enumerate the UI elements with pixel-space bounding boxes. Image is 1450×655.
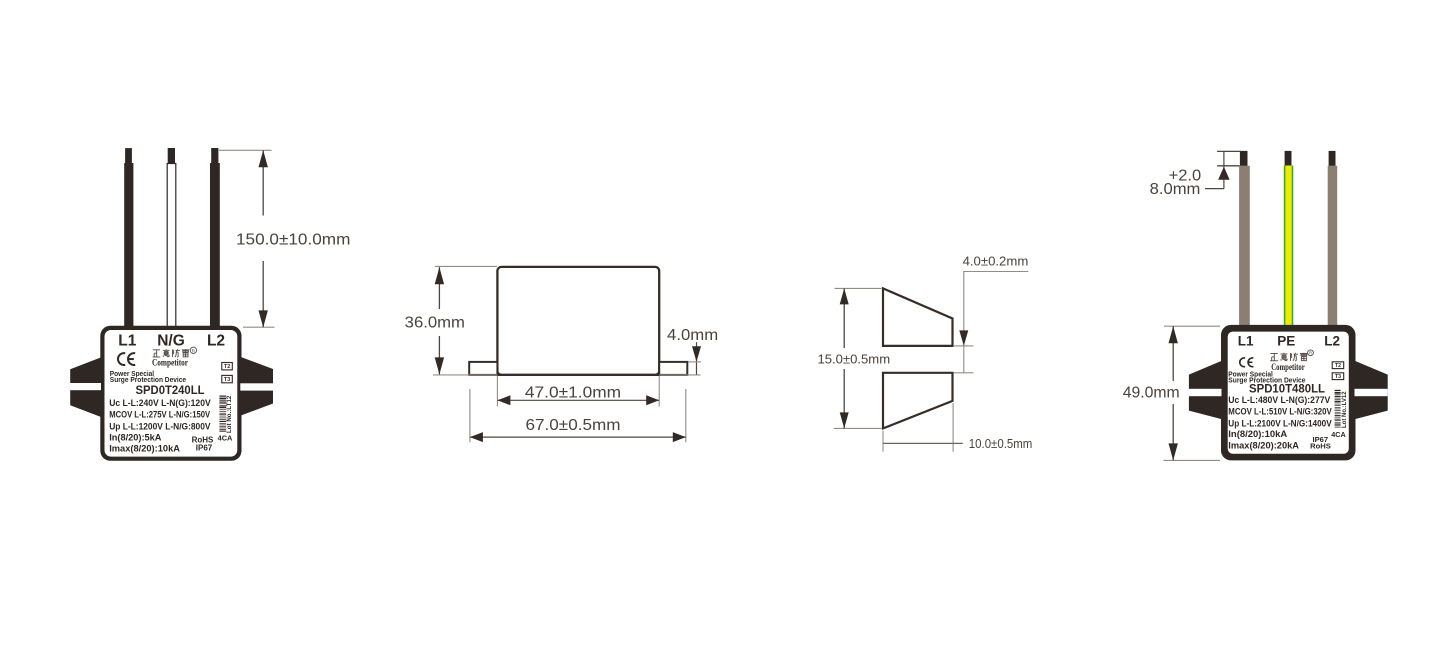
- brand hanzi 正意防雷: [153, 349, 160, 351]
- svg-text:Competitor: Competitor: [1271, 362, 1305, 372]
- right device right mounting wing: [1355, 361, 1388, 419]
- svg-text:Competitor: Competitor: [152, 358, 188, 369]
- class box T3 right: [1332, 373, 1344, 380]
- svg-text:T3: T3: [224, 377, 231, 383]
- right device body (black rounded box with white face): [1221, 325, 1356, 461]
- svg-text:T3: T3: [1335, 374, 1341, 380]
- svg-text:T2: T2: [224, 364, 231, 370]
- baseline: [433, 374, 701, 376]
- ratings text block: [109, 397, 211, 454]
- right device wire L1 (grey): [1239, 151, 1250, 325]
- svg-text:Lot No.:LV12: Lot No.:LV12: [1342, 391, 1348, 428]
- svg-text:In(8/20):5kA: In(8/20):5kA: [109, 432, 162, 443]
- svg-text:67.0±0.5mm: 67.0±0.5mm: [526, 417, 621, 434]
- svg-text:15.0±0.5mm: 15.0±0.5mm: [818, 353, 891, 367]
- CE mark: [118, 353, 125, 365]
- tab detail upper trapezoid: [883, 288, 953, 346]
- left device body (black rounded box with white face): [100, 326, 241, 461]
- dimension 4.0±0.2mm (gap): [954, 254, 1028, 372]
- registered mark right: [1308, 350, 1314, 356]
- svg-text:4CA: 4CA: [218, 434, 233, 443]
- dimension 47.0±1.0mm: [497, 376, 659, 407]
- svg-text:L2: L2: [1324, 334, 1340, 349]
- left device wire L1: [124, 148, 133, 327]
- svg-text:10.0±0.5mm: 10.0±0.5mm: [969, 437, 1032, 451]
- svg-text:SPD0T240LL: SPD0T240LL: [136, 383, 206, 397]
- svg-text:T2: T2: [1335, 363, 1341, 369]
- svg-text:4CA: 4CA: [1331, 430, 1345, 439]
- svg-text:In(8/20):10kA: In(8/20):10kA: [1228, 429, 1287, 439]
- left device right mounting wing: [241, 357, 273, 416]
- right device wire PE (green/yellow): [1284, 151, 1294, 325]
- CE mark right: [1240, 358, 1245, 367]
- svg-text:Imax(8/20):10kA: Imax(8/20):10kA: [109, 443, 180, 454]
- svg-text:R: R: [192, 348, 196, 354]
- side view right flange: [659, 362, 687, 375]
- svg-text:8.0mm: 8.0mm: [1150, 181, 1201, 198]
- dimension 150.0±10.0mm: [219, 150, 350, 327]
- svg-text:150.0±10.0mm: 150.0±10.0mm: [236, 231, 350, 248]
- dimension 10.0±0.5mm: [883, 403, 1032, 452]
- svg-text:SPD10T480LL: SPD10T480LL: [1249, 382, 1325, 396]
- svg-text:L2: L2: [207, 333, 225, 350]
- svg-text:R: R: [1309, 351, 1312, 356]
- svg-text:Up L-L:1200V L-N/G:800V: Up L-L:1200V L-N/G:800V: [109, 420, 211, 431]
- svg-text:L1: L1: [1238, 334, 1254, 349]
- svg-text:4.0±0.2mm: 4.0±0.2mm: [963, 254, 1029, 268]
- svg-text:Uc L-L:480V L-N(G):277V: Uc L-L:480V L-N(G):277V: [1228, 395, 1331, 405]
- dimension 49.0mm: [1123, 326, 1220, 460]
- dimension 67.0±0.5mm: [470, 389, 686, 442]
- side view body rectangle: [497, 267, 659, 375]
- svg-text:4.0mm: 4.0mm: [667, 327, 718, 344]
- svg-text:IP67: IP67: [196, 443, 213, 452]
- side view left flange: [469, 362, 497, 375]
- right device wire L2 (grey): [1328, 151, 1338, 325]
- svg-text:N/G: N/G: [157, 333, 185, 350]
- dimension 8.0mm +2.0 (strip length): [1150, 151, 1241, 198]
- dimension 36.0mm: [405, 266, 497, 374]
- barcode Lot No. LT12: [219, 395, 232, 433]
- left device left mounting wing: [70, 357, 101, 417]
- svg-text:Up L-L:2100V L-N/G:1400V: Up L-L:2100V L-N/G:1400V: [1228, 418, 1332, 428]
- class box T2 right: [1332, 362, 1344, 369]
- left device wire N/G (white): [167, 148, 176, 327]
- dimension 4.0mm (flange height): [667, 327, 718, 375]
- svg-text:PE: PE: [1277, 334, 1295, 349]
- tab detail lower trapezoid: [883, 373, 953, 429]
- svg-text:47.0±1.0mm: 47.0±1.0mm: [525, 385, 621, 402]
- class box T2: [222, 363, 233, 370]
- svg-text:RoHS: RoHS: [1310, 442, 1331, 451]
- svg-text:MCOV L-L:510V L-N/G:320V: MCOV L-L:510V L-N/G:320V: [1228, 407, 1332, 417]
- barcode Lot No. LV12: [1335, 390, 1348, 428]
- ratings text block right: [1228, 395, 1332, 451]
- svg-text:MCOV L-L:275V L-N/G:150V: MCOV L-L:275V L-N/G:150V: [109, 409, 211, 420]
- svg-text:Lot No.:LT12: Lot No.:LT12: [226, 395, 233, 433]
- right device left mounting wing: [1189, 361, 1222, 419]
- svg-text:L1: L1: [118, 333, 136, 350]
- dimension 15.0±0.5mm: [818, 288, 891, 428]
- svg-text:Uc L-L:240V L-N(G):120V: Uc L-L:240V L-N(G):120V: [109, 397, 211, 408]
- brand hanzi right: [1270, 352, 1277, 354]
- registered mark: [190, 347, 196, 353]
- svg-text:49.0mm: 49.0mm: [1123, 384, 1180, 401]
- svg-text:Imax(8/20):20kA: Imax(8/20):20kA: [1228, 441, 1299, 451]
- class box T3: [222, 375, 233, 382]
- svg-text:36.0mm: 36.0mm: [405, 314, 465, 331]
- left device wire L2: [210, 148, 220, 327]
